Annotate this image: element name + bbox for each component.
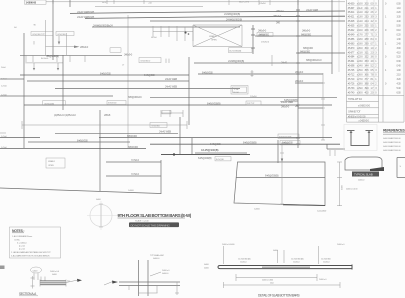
svg-text:x 18-0: x 18-0: [357, 38, 363, 41]
boxed label right of X: [257, 33, 273, 37]
svg-text:2#5x9-0: 2#5x9-0: [295, 70, 304, 74]
svg-text:1-0600-00: 1-0600-00: [26, 1, 37, 5]
svg-text:TYPICAL SLAB: TYPICAL SLAB: [354, 172, 373, 176]
trapezoid center line: [280, 145, 284, 205]
svg-text:2#5 TYP: 2#5 TYP: [247, 103, 255, 105]
small box lower right of first bay: [110, 48, 121, 52]
svg-text:x 12-0: x 12-0: [357, 11, 363, 14]
key box (double): [231, 86, 248, 95]
svg-text:DO NOT SCALE THIS DRAWING: DO NOT SCALE THIS DRAWING: [131, 223, 171, 227]
svg-text:STAIR-2: STAIR-2: [209, 35, 217, 38]
svg-text:24-6# x 27-0: 24-6# x 27-0: [239, 2, 250, 4]
table footer row 1: [347, 95, 405, 122]
svg-text:fy = 0-0: fy = 0-0: [19, 249, 26, 251]
stub x70 top: [69, 0, 71, 7]
faint vertical x339: [338, 0, 340, 72]
svg-text:2#5x9-0: 2#5x9-0: [281, 105, 290, 109]
svg-text:24x41 WEB: 24x41 WEB: [281, 100, 293, 104]
svg-text:#5-698: #5-698: [348, 65, 355, 68]
line y144 (long bottom): [150, 143, 340, 145]
svg-text:6#5@300: 6#5@300: [301, 33, 312, 37]
left small mark: [0, 132, 6, 134]
svg-text:2#5x9-0: 2#5x9-0: [302, 29, 311, 33]
line y133: [55, 132, 178, 134]
grid line x298 (main vertical): [297, 0, 299, 148]
lower dim line: [224, 282, 341, 288]
line y105 (long): [24, 104, 332, 106]
arrow dot right: [77, 279, 82, 282]
svg-text:#5-691: #5-691: [348, 60, 355, 63]
svg-text:OPEN: OPEN: [48, 165, 54, 167]
line y88: [55, 88, 240, 90]
svg-text:24x41: 24x41: [281, 61, 288, 65]
stair opening dim cluster: [153, 26, 193, 41]
svg-text:DETAIL OF SLAB BOTTOM BARS: DETAIL OF SLAB BOTTOM BARS: [258, 294, 300, 298]
svg-text:2-600 x 0: 2-600 x 0: [337, 244, 345, 246]
svg-text:6#5@300x16: 6#5@300x16: [128, 95, 142, 99]
svg-text:2#5x9-0: 2#5x9-0: [258, 29, 267, 33]
svg-text:1-0600: 1-0600: [128, 190, 135, 192]
svg-text:11x20-0: 11x20-0: [293, 262, 300, 264]
line y74/75: [20, 74, 323, 75]
diagonal slab edge: [0, 188, 161, 194]
svg-text:6#5@300: 6#5@300: [127, 134, 138, 138]
svg-text:2#5x8: 2#5x8: [104, 113, 111, 117]
line y138 (long): [0, 137, 332, 139]
svg-text:x 24-0: x 24-0: [357, 65, 363, 68]
stub x272: [271, 55, 273, 66]
table column lines: [358, 0, 374, 95]
small ticks below: [129, 286, 158, 294]
typical slab label dark: [352, 172, 379, 177]
svg-text:11x20-0: 11x20-0: [240, 262, 247, 264]
svg-text:0-600-0: 0-600-0: [358, 180, 365, 182]
right dim of trapezoid: [337, 162, 342, 206]
the long bar: [218, 266, 352, 269]
svg-text:8-#5@300: 8-#5@300: [202, 70, 213, 74]
channel symbol U-shape: [344, 125, 377, 151]
grid line x278: [277, 140, 279, 163]
trapezoid bottom dark segment: [283, 204, 325, 207]
svg-text:0-600 x 0-600: 0-600 x 0-600: [262, 279, 274, 281]
svg-text:11-#5@300 (B): 11-#5@300 (B): [238, 259, 251, 261]
svg-text:2#5x9-0: 2#5x9-0: [259, 3, 266, 5]
svg-text:11-#5@300: 11-#5@300: [321, 259, 331, 261]
svg-text:0-600 x 0-0 00: 0-600 x 0-0 00: [346, 188, 358, 190]
left edge smudge: [0, 266, 5, 270]
svg-text:(2)#5x12-0 (2)#5x14-0: (2)#5x12-0 (2)#5x14-0: [54, 113, 76, 117]
down arrow x59: [58, 36, 60, 42]
short ticks x252: [251, 70, 254, 77]
line y53 right: [298, 52, 345, 54]
line y142: [28, 141, 130, 143]
corner connector top right: [327, 144, 345, 149]
grid line x189: [188, 57, 190, 125]
svg-text:2#5 TYP: 2#5 TYP: [258, 35, 266, 37]
svg-text:#5-726: #5-726: [348, 82, 355, 85]
boxed label below line: [215, 157, 231, 161]
corner marks above trapezoid right: [330, 150, 335, 156]
svg-text:3. ALL BARS WITH STD HOOKS AND: 3. ALL BARS WITH STD HOOKS AND BENDS: [11, 254, 50, 257]
grid line x253: [251, 25, 255, 54]
svg-text:6#5@300 TYP: 6#5@300 TYP: [279, 136, 292, 138]
svg-text:#5-705: #5-705: [348, 69, 355, 72]
junction dots: [184, 31, 186, 33]
svg-text:GRAND TOT: GRAND TOT: [348, 111, 361, 114]
svg-text:STAIR-1: STAIR-1: [48, 160, 56, 163]
svg-text:NOTES :: NOTES :: [12, 229, 24, 233]
grid line x332: [331, 0, 333, 74]
svg-text:2#5x9-0: 2#5x9-0: [273, 14, 282, 18]
right edge partial box: [397, 158, 405, 178]
ticks x166: [166, 59, 169, 63]
boxed label below X: [229, 48, 253, 53]
svg-text:x 25-0: x 25-0: [357, 69, 363, 72]
svg-text:TOTAL WT 0-0: TOTAL WT 0-0: [348, 98, 363, 101]
svg-text:#5-677: #5-677: [348, 51, 355, 54]
svg-text:#5-719: #5-719: [348, 78, 355, 81]
dim line left of bundle: [31, 276, 35, 289]
bar schedule table frame: [347, 0, 405, 122]
second top line: [95, 5, 203, 7]
svg-text:#5-656: #5-656: [348, 38, 355, 41]
line y83 right: [295, 82, 323, 84]
svg-text:24x41 WEB: 24x41 WEB: [306, 8, 318, 12]
svg-text:2#5x12: 2#5x12: [276, 9, 284, 13]
STAIR box: [46, 158, 65, 168]
svg-text:8-#5@300(B): 8-#5@300(B): [265, 174, 279, 178]
svg-text:11-#5@300 (B): 11-#5@300 (B): [291, 259, 304, 261]
svg-text:#5-600: #5-600: [348, 2, 355, 5]
svg-text:0-600 SLAB DWG 00: 0-600 SLAB DWG 00: [383, 149, 401, 152]
rebar bundle: [40, 281, 66, 285]
svg-text:24-6#5@300(B): 24-6#5@300(B): [224, 12, 240, 16]
svg-text:#5-635: #5-635: [348, 25, 355, 28]
svg-text:8-#5@300(B): 8-#5@300(B): [243, 141, 257, 145]
svg-text:x 20-0: x 20-0: [357, 47, 363, 50]
svg-text:x 22-0: x 22-0: [357, 56, 363, 59]
svg-text:fy = 0-0: fy = 0-0: [19, 246, 26, 248]
down arrows dim: [34, 63, 58, 69]
svg-text:24-6#5@300(B): 24-6#5@300(B): [226, 18, 242, 22]
line y108 right: [298, 107, 323, 109]
svg-text:x 29-0: x 29-0: [357, 87, 363, 90]
svg-text:0-600 SLAB DWG 00: 0-600 SLAB DWG 00: [383, 145, 401, 148]
svg-text:#5@300 (B): #5@300 (B): [44, 103, 54, 105]
svg-text:0-600-0: 0-600-0: [162, 273, 169, 275]
svg-text:#5-684: #5-684: [348, 56, 355, 59]
svg-text:x 27-0: x 27-0: [357, 78, 363, 81]
grid line x24: [23, 33, 25, 148]
svg-text:x 26-0: x 26-0: [357, 74, 363, 77]
svg-text:24-6#5@300(B)x24: 24-6#5@300(B)x24: [93, 24, 113, 28]
svg-text:2-600 x 0: 2-600 x 0: [319, 279, 327, 281]
notch lines right mid: [106, 162, 161, 176]
slab bar line y21: [150, 20, 345, 22]
grid line x63: [62, 55, 64, 110]
dim line y125: [22, 121, 187, 129]
extra line y102 right: [280, 101, 298, 103]
svg-text:24x41 WEB(2)#5: 24x41 WEB(2)#5: [77, 10, 95, 14]
svg-text:x 0-600 0-0 0: x 0-600 0-0 0: [358, 105, 371, 108]
svg-text:#5-733: #5-733: [348, 87, 355, 90]
svg-text:#5-614: #5-614: [348, 11, 355, 14]
vertical x45.5: [45, 20, 47, 55]
mid section horizontals: [119, 282, 180, 286]
svg-text:24x41 WEB: 24x41 WEB: [165, 85, 177, 89]
svg-text:8-#5@300: 8-#5@300: [100, 72, 111, 76]
svg-text:11x20-0: 11x20-0: [323, 262, 330, 264]
svg-text:x 15-0: x 15-0: [357, 25, 363, 28]
grid line x128: [127, 15, 129, 148]
svg-text:2-600 x 0-0: 2-600 x 0-0: [50, 271, 60, 273]
svg-text:7x7x0-0: 7x7x0-0: [131, 172, 140, 176]
svg-text:2#5x9-0: 2#5x9-0: [80, 45, 89, 49]
dark wedge in detail: [370, 167, 384, 171]
bar line y52: [46, 46, 74, 48]
svg-text:2#5x9-0: 2#5x9-0: [295, 79, 304, 83]
svg-text:24x41 WEB: 24x41 WEB: [165, 77, 177, 81]
line y81: [27, 80, 189, 82]
svg-text:2. LAP ALL BARS AS PER TABLE S: 2. LAP ALL BARS AS PER TABLE SHOWN TYP: [11, 251, 51, 254]
svg-text:x 19-0: x 19-0: [357, 42, 363, 45]
svg-text:fc = 0-600-0: fc = 0-600-0: [17, 243, 27, 245]
stair opening X brace: [193, 25, 242, 47]
svg-text:OPEN: OPEN: [211, 40, 217, 42]
line y63: [194, 62, 332, 64]
svg-text:x 23-0: x 23-0: [357, 60, 363, 63]
svg-text:x 16-0: x 16-0: [357, 29, 363, 32]
leader to arrow: [66, 280, 77, 282]
svg-text:2#5x9-0: 2#5x9-0: [124, 53, 133, 57]
grid line x180: [179, 117, 181, 155]
line y36 right: [255, 35, 332, 37]
svg-text:16-#5@300(B): 16-#5@300(B): [229, 51, 241, 53]
graphic scale circle: [90, 205, 112, 227]
svg-text:x 30-0: x 30-0: [357, 91, 363, 94]
svg-text:x 11-0: x 11-0: [357, 7, 363, 10]
boxed label mid: [150, 123, 167, 128]
right connector x323: [321, 73, 325, 140]
svg-text:#5-628: #5-628: [348, 20, 355, 23]
svg-text:x 13-0: x 13-0: [357, 16, 363, 19]
svg-text:6#5@300: 6#5@300: [303, 46, 314, 50]
svg-text:#5-649: #5-649: [348, 33, 355, 36]
vertical step x161: [160, 160, 162, 194]
svg-text:#5-600 x 0-0 0.0 00: #5-600 x 0-0 0.0 00: [348, 115, 366, 118]
svg-text:8-#5@300: 8-#5@300: [77, 139, 88, 143]
line y99 stub left: [150, 97, 337, 99]
top dim ticks row2: [25, 55, 85, 63]
svg-text:#5-607: #5-607: [348, 7, 355, 10]
grid line x53: [52, 0, 54, 60]
svg-text:x 21-0: x 21-0: [357, 51, 363, 54]
vertical x66.7 stub: [66, 33, 68, 55]
balloon callout: [31, 267, 42, 273]
top label box left: [25, 0, 47, 4]
table rows: [347, 2, 402, 94]
svg-text:8-#5@300(B): 8-#5@300(B): [207, 101, 221, 105]
boxed label pair: [31, 32, 53, 36]
svg-text:#5-663: #5-663: [348, 42, 355, 45]
svg-text:TYP SLAB x BM: TYP SLAB x BM: [150, 254, 164, 257]
top dim verticals: [224, 246, 319, 264]
below dim line: [236, 274, 317, 281]
tick marks on x298: [296, 10, 300, 144]
svg-text:x 28-0: x 28-0: [357, 82, 363, 85]
svg-text:1. ALL DIMS ARE IN mm: 1. ALL DIMS ARE IN mm: [12, 235, 32, 238]
lower trapezoid panel: [234, 162, 325, 206]
svg-text:7x7x0-0: 7x7x0-0: [131, 158, 140, 162]
svg-text:2-600 x 0: 2-600 x 0: [162, 270, 170, 272]
svg-text:6#5@300: 6#5@300: [108, 103, 117, 105]
slab bar line y16: [85, 16, 345, 18]
line y147: [0, 147, 146, 149]
svg-text:2#5x9-0: 2#5x9-0: [250, 96, 257, 98]
svg-text:1-0600: 1-0600: [254, 209, 261, 211]
svg-text:2#5x9-0 0: 2#5x9-0 0: [261, 42, 270, 44]
svg-text:SECTION A-A: SECTION A-A: [19, 292, 37, 296]
slab bar line y11: [70, 11, 345, 13]
svg-text:x 14-0: x 14-0: [357, 20, 363, 23]
svg-text:6#5@300 0: 6#5@300 0: [141, 61, 152, 63]
grid line x192 short: [191, 138, 193, 154]
svg-text:9TH FLOOR SLAB BOTTOM BARS (E-: 9TH FLOOR SLAB BOTTOM BARS (E-W): [118, 213, 192, 218]
svg-text:x 17-0: x 17-0: [357, 33, 363, 36]
line y55 with dark label: [20, 54, 122, 56]
line y153 stub: [195, 152, 247, 154]
trapezoid mid line: [236, 177, 325, 179]
mid section right dim: [175, 282, 179, 295]
boxed label y58: [139, 58, 161, 63]
svg-text:0-600-0: 0-600-0: [153, 258, 160, 260]
svg-text:6#5@300 TYP: 6#5@300 TYP: [33, 34, 46, 36]
svg-text:6#5@300x16-0: 6#5@300x16-0: [306, 58, 322, 62]
line y94: [0, 95, 113, 97]
svg-text:24x41 WEB(2)#5: 24x41 WEB(2)#5: [77, 15, 95, 19]
svg-text:x 0-600 0-0: x 0-600 0-0: [359, 120, 370, 123]
slab bar line y27: [92, 26, 240, 28]
svg-text:8-#5@300(B): 8-#5@300(B): [198, 156, 212, 160]
svg-text:6#5@300: 6#5@300: [152, 125, 161, 127]
svg-text:6#5@300: 6#5@300: [58, 34, 67, 36]
svg-text:2-600 x 0 0-600: 2-600 x 0 0-600: [222, 244, 235, 246]
svg-text:8-#5@30: 8-#5@30: [216, 159, 225, 161]
svg-text:16-#5@300(B): 16-#5@300(B): [201, 148, 219, 152]
svg-text:#5-712: #5-712: [348, 74, 355, 77]
svg-text:1-0x0-0600: 1-0x0-0600: [317, 211, 327, 213]
typical slab detail box: [345, 157, 382, 170]
notes box: [10, 227, 61, 258]
svg-text:SCALE : 1 = 100: SCALE : 1 = 100: [135, 220, 149, 223]
dark revision bar: [129, 222, 179, 227]
svg-text:REFERENCES: REFERENCES: [383, 129, 405, 133]
svg-text:8-0 0-0-0: 8-0 0-0-0: [41, 58, 49, 60]
svg-text:#5-642: #5-642: [348, 29, 355, 32]
grid line x100: [99, 110, 101, 191]
svg-text:24-6#5@300(B): 24-6#5@300(B): [228, 59, 244, 63]
dim cluster upper: [161, 110, 183, 117]
svg-text:6#5@300: 6#5@300: [128, 145, 139, 149]
svg-text:#5-670: #5-670: [348, 47, 355, 50]
svg-text:CONC.: CONC.: [14, 239, 21, 241]
svg-text:8-#5@300: 8-#5@300: [282, 141, 293, 145]
mid section verticals: [139, 260, 149, 296]
bold line y154 with dot: [161, 154, 250, 156]
svg-text:x 10-0: x 10-0: [357, 2, 363, 5]
svg-text:24x41 WEB: 24x41 WEB: [159, 130, 171, 134]
svg-text:6#5@300: 6#5@300: [300, 50, 311, 54]
arrow left: [112, 281, 118, 284]
top dimension line: [46, 0, 345, 5]
svg-text:0-600 SLAB DWG 00: 0-600 SLAB DWG 00: [383, 137, 401, 140]
svg-text:0-600 SLAB DWG 00: 0-600 SLAB DWG 00: [383, 141, 401, 144]
svg-text:#5-621: #5-621: [348, 16, 355, 19]
svg-text:#5-740: #5-740: [348, 91, 355, 94]
svg-text:2 T/B: 2 T/B: [234, 89, 239, 91]
